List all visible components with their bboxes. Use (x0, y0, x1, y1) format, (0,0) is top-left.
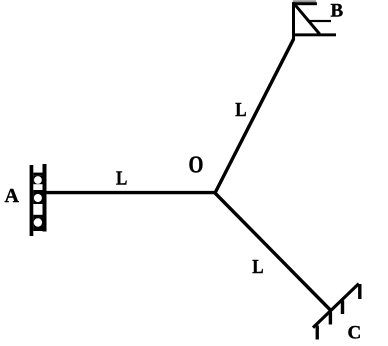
svg-text:L: L (116, 167, 127, 190)
svg-text:O: O (189, 152, 204, 179)
svg-text:B: B (331, 1, 344, 22)
svg-text:L: L (252, 256, 263, 279)
svg-text:L: L (235, 99, 246, 122)
svg-text:C: C (348, 323, 362, 344)
svg-text:A: A (5, 185, 20, 207)
